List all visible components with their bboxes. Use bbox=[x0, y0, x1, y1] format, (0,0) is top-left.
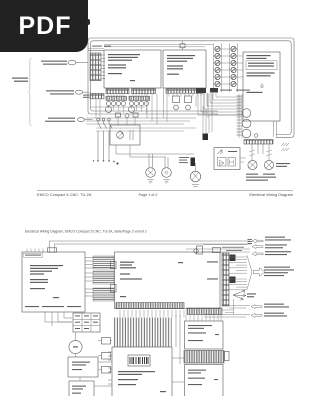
terminal row below border bbox=[244, 140, 273, 144]
brace bracket bbox=[28, 58, 31, 126]
main board A12 bbox=[112, 347, 172, 396]
footer/header text bbox=[25, 190, 293, 233]
label 30mA bbox=[92, 46, 111, 47]
A11 underside pin ticks bbox=[120, 310, 184, 317]
G2 text bbox=[72, 386, 86, 394]
connector plug CN1 bbox=[68, 60, 76, 64]
wire optional input bbox=[186, 249, 250, 252]
relay K1 bbox=[173, 96, 180, 103]
wire riser bbox=[239, 94, 242, 138]
diode D1 bbox=[220, 160, 225, 166]
motor connector M2 bbox=[128, 106, 134, 112]
A1 text block bbox=[108, 54, 140, 81]
relay K2 bbox=[185, 96, 192, 103]
label emergency recorder bbox=[45, 118, 75, 122]
inline device circle bbox=[125, 114, 129, 118]
wire fuse F3 bbox=[182, 41, 184, 50]
wires from A10 down bbox=[45, 312, 72, 326]
A10 bottom terminal text bbox=[25, 306, 81, 307]
svg-text:Electrical Wiring Diagram: Electrical Wiring Diagram bbox=[249, 192, 293, 197]
A3 text block bbox=[247, 55, 275, 93]
wire ladder left of A3 bbox=[237, 96, 242, 135]
wire right riser bbox=[233, 299, 235, 315]
comb bracket bbox=[247, 256, 252, 290]
filter block dark bbox=[203, 134, 209, 141]
label beside lamp bbox=[276, 163, 290, 167]
transistor Q1 in A4 bbox=[117, 132, 124, 139]
wire drops fuse to bus bbox=[109, 106, 147, 113]
A5 label bbox=[228, 151, 237, 152]
connector plug CN2 bbox=[75, 90, 82, 94]
Q1 arrow bbox=[118, 130, 133, 140]
inline device small 2 bbox=[133, 113, 138, 117]
suppressor box A5 bbox=[214, 148, 240, 170]
A10 top edge ticks bbox=[27, 249, 43, 253]
wires connectors bbox=[98, 341, 112, 370]
top wire run 1 bbox=[50, 241, 251, 252]
svg-text:EMCO Compact 5 CNC: TU-2A: EMCO Compact 5 CNC: TU-2A bbox=[37, 192, 92, 197]
label output bus bbox=[264, 267, 294, 277]
A10 corner label bbox=[24, 253, 43, 257]
bus wires top bbox=[88, 45, 213, 49]
ribbon cable W11 bbox=[93, 288, 114, 301]
pump motor P3 bbox=[242, 129, 251, 138]
label MC bbox=[247, 293, 256, 297]
wire A5 right bbox=[240, 158, 246, 162]
inline device small bbox=[116, 113, 121, 117]
lamp E2 cross bbox=[266, 162, 272, 168]
svg-text:Electrical Wiring Diagram, EMC: Electrical Wiring Diagram, EMCO Compact … bbox=[25, 230, 147, 234]
hatch marks PE bbox=[281, 143, 289, 151]
label TB bbox=[220, 90, 250, 91]
wires between A12 and A13 bbox=[172, 315, 184, 382]
connector cn13 bbox=[102, 338, 111, 345]
junction table box bbox=[73, 313, 100, 332]
label 110/230V bbox=[12, 78, 28, 82]
motor M3 bbox=[146, 168, 156, 178]
switch S2 blade bbox=[104, 121, 107, 160]
label text right 1 bbox=[265, 237, 291, 241]
fan out wires bbox=[186, 315, 221, 321]
switch S2 bbox=[102, 118, 105, 121]
switch S1 bbox=[97, 118, 100, 121]
connector plug CN3 bbox=[77, 118, 84, 122]
terminal ladder X10 bbox=[222, 253, 229, 306]
A3 inner frame bbox=[246, 61, 277, 70]
A12 left edge ticks bbox=[108, 352, 112, 384]
bus lines mid left bbox=[86, 118, 196, 124]
lamp E2 bbox=[264, 160, 273, 169]
cpu left edge connector b bbox=[111, 285, 117, 293]
table text bbox=[75, 315, 98, 329]
switch S1 blade bbox=[98, 121, 101, 160]
A10 corner label text bbox=[25, 255, 41, 256]
wire bbox=[83, 91, 90, 93]
G1 text bbox=[72, 362, 90, 371]
label 24V bbox=[83, 95, 89, 98]
PAGE2 bbox=[22, 237, 294, 396]
terminal strip X2 bbox=[90, 93, 104, 98]
connector cn14 bbox=[102, 353, 111, 360]
top connector CN10 bbox=[48, 248, 57, 252]
M5 hatch bbox=[192, 163, 199, 186]
A14 text bbox=[188, 370, 218, 386]
interface connector strip top bbox=[187, 308, 222, 315]
thyristor bridge rails bbox=[214, 44, 238, 93]
ground mark bbox=[260, 83, 264, 87]
risers right mid bbox=[203, 106, 212, 134]
bus lines lower bbox=[96, 128, 196, 131]
A11 bottom connector row bbox=[116, 303, 184, 309]
label text right 3 bbox=[265, 251, 291, 255]
keyboard board A14 bbox=[185, 365, 224, 396]
lamp E1 cross bbox=[249, 162, 255, 168]
A1 bottom connector row 2 bbox=[132, 89, 156, 94]
thyristor rows bbox=[215, 46, 236, 86]
ribbon cable W12 vertical bbox=[114, 318, 172, 348]
node label mains bbox=[41, 61, 67, 65]
control transformer board A2 bbox=[163, 50, 206, 88]
connector cn15 bbox=[102, 367, 111, 374]
terminal strip X1 bbox=[90, 53, 101, 81]
connector CN11 bbox=[197, 246, 203, 254]
switch S3 blade bbox=[109, 121, 112, 160]
fuse bank F2 hatch bbox=[129, 96, 150, 100]
cpu board A11 bbox=[115, 252, 221, 309]
thyristor arrows bbox=[216, 47, 236, 86]
A10 text block bbox=[30, 265, 63, 298]
label TBB2 bbox=[207, 261, 218, 279]
diode sub box 1 bbox=[218, 158, 227, 167]
switch S3 bbox=[108, 118, 111, 121]
arrow label right 2 bbox=[252, 245, 263, 249]
A2 bottom connector row bbox=[166, 89, 203, 94]
comb wires group B bbox=[229, 279, 247, 290]
label tiny bbox=[179, 157, 189, 163]
connector triple block bbox=[248, 240, 253, 244]
wires below A4 bbox=[116, 145, 194, 157]
terminal strip X1 ticks bbox=[101, 55, 105, 79]
psu box G2 bbox=[69, 381, 94, 396]
big arrow output bus bbox=[254, 268, 266, 276]
motor M5 bbox=[190, 171, 200, 181]
wire risers from A2 bbox=[164, 88, 213, 122]
diode sub box 2 bbox=[228, 158, 236, 167]
small node bbox=[254, 134, 258, 138]
fuse circles group F1 bbox=[106, 102, 125, 106]
indicator H1 bbox=[174, 105, 179, 110]
M4 lead bbox=[164, 157, 170, 183]
indicator H2 bbox=[186, 105, 191, 110]
A2 text block bbox=[167, 55, 195, 75]
table grid bbox=[73, 313, 100, 332]
connector right of strip bbox=[225, 352, 230, 361]
connector drop ticks bbox=[108, 94, 201, 97]
fuse bank F1 hatch bbox=[106, 96, 127, 100]
cpu left edge connector a bbox=[111, 262, 117, 269]
M3 lead bbox=[148, 154, 154, 183]
label under lamps bbox=[246, 174, 276, 181]
power board A10 bbox=[22, 252, 85, 312]
wire thyristor feeders bbox=[208, 56, 243, 107]
arrow label right 4 bbox=[251, 305, 262, 309]
wire bbox=[76, 62, 88, 64]
pump motor P2 bbox=[242, 119, 251, 128]
terminal block dark TB2 bbox=[210, 88, 218, 93]
ribbon cable W10b bbox=[93, 271, 114, 284]
rectifier box G1 bbox=[68, 357, 98, 377]
arrow label right 5 bbox=[251, 313, 262, 317]
comb wires group A bbox=[229, 257, 247, 273]
terminal block dark TB1 bbox=[196, 88, 206, 93]
wire bbox=[88, 50, 104, 52]
pump motor P1 bbox=[242, 109, 251, 118]
X10 dark block 1 bbox=[230, 255, 236, 262]
wire bbox=[85, 119, 93, 121]
motor M4 bbox=[162, 168, 172, 178]
A12 text block bbox=[118, 371, 166, 392]
wire drops to lamps bbox=[252, 144, 269, 160]
spindle controller board A1 bbox=[104, 50, 161, 88]
wire to arrows bottom right bbox=[204, 306, 250, 318]
label analog plug bbox=[46, 90, 74, 94]
T1 wires bbox=[75, 332, 77, 357]
A10 right edge ticks bbox=[85, 258, 93, 297]
thyristor row links bbox=[214, 49, 238, 84]
MC fan symbol bbox=[233, 291, 246, 301]
connector block CN12b bbox=[213, 248, 221, 253]
footer rule page 1 bbox=[37, 189, 293, 191]
connector ring CN12 bbox=[194, 249, 198, 253]
cabinet border outer bbox=[88, 38, 294, 137]
interface board A13 bbox=[185, 321, 224, 349]
wire strip corner bbox=[222, 310, 234, 313]
lamp E1 bbox=[248, 160, 257, 169]
X10 dark block 2 bbox=[230, 277, 236, 284]
PAGE1 bbox=[12, 38, 294, 186]
interface connector strip bottom bbox=[184, 351, 224, 364]
barcode bars bbox=[130, 357, 148, 364]
A11 text block bbox=[120, 262, 183, 298]
crossing ticks bbox=[249, 150, 272, 156]
A1 bottom connector row bbox=[106, 89, 129, 94]
T1 label bbox=[73, 346, 78, 347]
wire G1 G2 link bbox=[80, 362, 112, 386]
transformer T1 bbox=[69, 340, 82, 353]
wire label small 1 bbox=[222, 247, 244, 251]
arrow label right 1 bbox=[252, 239, 263, 243]
driver box A4 bbox=[110, 125, 140, 145]
filter block dark 2 bbox=[191, 158, 196, 167]
A13 text bbox=[188, 325, 219, 341]
cabinet border inner bbox=[91, 41, 292, 135]
label text right 2 bbox=[265, 244, 287, 248]
label text right 4 bbox=[264, 304, 289, 308]
svg-text:Page 1 of 2: Page 1 of 2 bbox=[139, 193, 158, 197]
wires A3 down bbox=[274, 121, 277, 137]
arrow label right 3 bbox=[252, 252, 263, 256]
wire end dots bbox=[93, 160, 119, 165]
bus staircase bbox=[198, 93, 242, 115]
diode D2 bbox=[230, 160, 234, 165]
power supply box A3 bbox=[243, 52, 280, 121]
fuse circles group F2 bbox=[129, 102, 148, 106]
motor connector M1 bbox=[105, 106, 111, 112]
ribbon cable W10 bbox=[93, 256, 114, 269]
wire risers mid bbox=[90, 94, 157, 125]
label text right 5 bbox=[264, 313, 287, 317]
barcode label bbox=[128, 355, 150, 366]
A5 arrow symbol bbox=[217, 150, 223, 154]
fuse F3 on top of A2 bbox=[180, 44, 185, 48]
wire third bbox=[203, 244, 247, 246]
